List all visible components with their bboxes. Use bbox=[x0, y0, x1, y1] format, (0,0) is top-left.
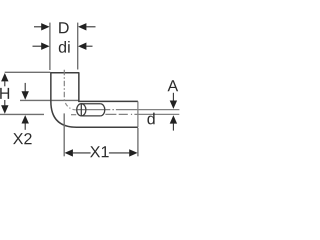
inlet centerline vertical bbox=[63, 70, 65, 102]
spigot axis centerline bbox=[77, 109, 180, 111]
svg-text:X2: X2 bbox=[13, 131, 33, 148]
dimension A arrow down bbox=[170, 93, 177, 109]
extension line pipe top left (H reference) bbox=[5, 71, 51, 73]
dimension A arrow up (d reference) bbox=[170, 115, 177, 130]
dimension D arrow left bbox=[34, 23, 50, 30]
dimension H arrow up bbox=[1, 73, 8, 86]
extension line X1 left (inlet axis) bbox=[63, 113, 65, 156]
outlet axis dash in body bbox=[71, 114, 76, 116]
pipe elbow outline: left wall, bend and bottom edge bbox=[51, 73, 138, 128]
dimension X2 arrow up bbox=[22, 115, 29, 130]
extension line D/di left bbox=[49, 23, 51, 70]
dimension X1 arrow left bbox=[65, 149, 91, 156]
socket bore ellipse vertical diameter bbox=[80, 104, 82, 116]
socket bore bottom line bbox=[81, 115, 100, 117]
extension line D/di right bbox=[77, 23, 79, 70]
svg-text:A: A bbox=[167, 78, 178, 95]
pipe outlet end face bbox=[137, 101, 139, 127]
extension line X1 right (outlet end) bbox=[137, 128, 139, 156]
outlet axis centerline right bbox=[105, 113, 179, 115]
dimension X2 arrow down bbox=[22, 83, 29, 100]
dimension D arrow right bbox=[78, 23, 96, 30]
dimension di arrow right bbox=[78, 43, 93, 50]
socket bore right cap bbox=[100, 104, 104, 116]
svg-text:D: D bbox=[58, 20, 70, 37]
socket bore ellipse bbox=[77, 104, 86, 116]
socket bore top line bbox=[81, 103, 100, 105]
dimension X1 arrow right bbox=[109, 149, 138, 156]
dimension H arrow down bbox=[1, 100, 8, 114]
pipe elbow outline: inlet top edge bbox=[50, 72, 79, 74]
bend axis arc bbox=[65, 103, 76, 110]
svg-text:X1: X1 bbox=[90, 144, 110, 161]
extension line fitting top left (X2 reference) bbox=[20, 99, 79, 101]
svg-text:di: di bbox=[58, 40, 70, 57]
dimension di arrow left bbox=[33, 43, 50, 50]
pipe elbow outline: right wall and outlet top edge bbox=[79, 73, 138, 102]
svg-text:d: d bbox=[147, 111, 156, 128]
extension line outlet axis left (H / X2 reference) bbox=[0, 113, 44, 115]
